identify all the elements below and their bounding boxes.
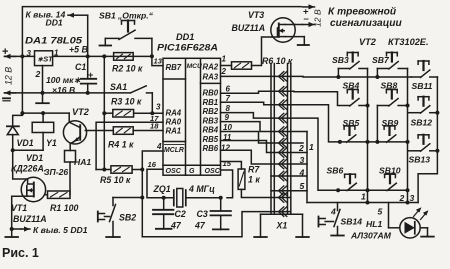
wire +12V riser and top rail to alarm	[22, 7, 301, 57]
svg-text:RB7: RB7	[166, 63, 182, 72]
svg-text:VT2: VT2	[359, 37, 377, 47]
svg-text:RA2: RA2	[203, 63, 219, 72]
svg-text:КТ3102Е.: КТ3102Е.	[388, 37, 429, 47]
svg-text:R6 10 к: R6 10 к	[262, 56, 293, 66]
wire pin 2 to connector	[221, 75, 272, 77]
capacitor C3 47	[220, 198, 222, 211]
wire +5V to DD1 pin 13	[152, 56, 163, 65]
svg-text:RB3: RB3	[203, 116, 219, 125]
svg-text:КД226А.: КД226А.	[11, 164, 46, 174]
wire R6 to VT3 gate	[252, 37, 273, 66]
svg-text:SB3: SB3	[332, 55, 349, 65]
svg-text:6: 6	[226, 85, 231, 94]
resistor R5 10k	[111, 166, 132, 173]
wire relay node	[22, 112, 69, 114]
svg-text:4 МГц: 4 МГц	[188, 184, 215, 194]
wire X1 row6 stub	[291, 142, 303, 144]
button SB2	[113, 197, 142, 199]
contact chevrons X1 row 4	[271, 117, 291, 119]
wire DA1 pin2 to ground	[42, 66, 44, 93]
resistor R2 10k	[114, 53, 134, 61]
contact chevrons X1 row 2	[271, 90, 291, 92]
svg-text:SB13: SB13	[409, 155, 431, 165]
svg-text:47: 47	[194, 221, 206, 231]
wire +12V to DA1 and top rail	[5, 55, 35, 57]
svg-text:Х1: Х1	[276, 221, 288, 231]
svg-text:С1: С1	[75, 62, 86, 72]
svg-text:7: 7	[226, 94, 231, 103]
svg-text:Рис. 1: Рис. 1	[2, 246, 39, 260]
svg-text:„Откр.“: „Откр.“	[117, 11, 154, 21]
capacitor C1 100uF 16V	[87, 56, 89, 78]
ground X1 right	[302, 214, 304, 237]
wire +5V rail	[53, 55, 153, 57]
LED HL1 AL307AM	[388, 203, 390, 228]
wire pin 9 to connector	[221, 122, 272, 132]
svg-text:DD1: DD1	[46, 18, 63, 28]
contact chevrons X1 row 9	[271, 175, 291, 177]
contact chevrons X1 row 7	[271, 152, 291, 154]
svg-text:RB5: RB5	[203, 135, 219, 144]
wire VT3 drain to alarm terminal	[303, 24, 315, 26]
resistor R4 1k	[113, 127, 133, 135]
wire R5 to MCLR node	[132, 169, 142, 171]
svg-text:3: 3	[27, 49, 32, 58]
contact chevrons X1 row 3	[271, 104, 291, 106]
svg-text:RA1: RA1	[166, 126, 182, 135]
svg-text:Y1: Y1	[46, 138, 57, 148]
contact chevrons X1 row 6	[271, 142, 291, 144]
svg-text:HL1: HL1	[366, 219, 382, 229]
svg-text:ЗП-26: ЗП-26	[44, 167, 68, 177]
wire pin1 to R6	[221, 65, 232, 67]
svg-text:5: 5	[378, 207, 383, 217]
svg-text:SB2: SB2	[119, 213, 136, 223]
svg-text:3: 3	[156, 103, 161, 112]
svg-text:RA4: RA4	[166, 109, 182, 118]
wire SB1 right contact to +5V rail	[135, 37, 152, 39]
svg-text:MCU: MCU	[187, 63, 202, 70]
svg-text:ZQ1: ZQ1	[153, 184, 171, 194]
wire top rail arrow	[303, 6, 315, 8]
svg-text:DD1: DD1	[176, 32, 194, 42]
svg-text:1: 1	[361, 192, 366, 202]
contact chevrons X1 row 10	[271, 190, 291, 192]
svg-text:RB6: RB6	[203, 144, 219, 153]
bottom bus wire	[307, 202, 418, 204]
wire +5V drop to R3	[103, 56, 105, 113]
svg-text:+: +	[88, 70, 93, 80]
svg-text:10: 10	[223, 123, 232, 132]
wire -12V rail	[5, 92, 131, 94]
wire R7 top to DD1	[221, 162, 242, 170]
wire X1 row9 to bus collector	[291, 175, 307, 177]
svg-text:RB0: RB0	[203, 89, 219, 98]
svg-text:сигнализации: сигнализации	[330, 18, 402, 29]
svg-text:16: 16	[148, 160, 157, 169]
column 1 wire	[367, 69, 369, 203]
svg-text:OSC: OSC	[166, 167, 182, 175]
svg-text:1: 1	[309, 142, 314, 152]
node +12V input terminal	[5, 55, 16, 57]
buzzer HA1 ZP-26	[65, 151, 76, 163]
wire MCLR node down to SB2	[141, 170, 143, 198]
wire SB1 left contact to ground	[105, 37, 119, 39]
svg-text:SB12: SB12	[411, 118, 433, 128]
key row D wire	[338, 189, 407, 191]
wire X1 row4 to key row D	[291, 118, 338, 190]
wire pin 12 to connector	[221, 150, 272, 164]
voltage regulator DA1 78L05	[35, 51, 53, 66]
svg-text:SB11: SB11	[412, 81, 433, 91]
svg-text:13: 13	[154, 57, 163, 66]
wire pin 7 to connector	[221, 102, 272, 104]
svg-text:9: 9	[225, 113, 230, 122]
wire R7 bottom to connector	[241, 189, 271, 197]
svg-text:3: 3	[410, 193, 415, 203]
ground X1 left	[260, 214, 262, 237]
node to pin 5 DD1	[12, 228, 21, 230]
svg-text:К тревожной: К тревожной	[328, 7, 397, 18]
svg-text:1 к: 1 к	[248, 175, 260, 185]
svg-text:∗ST: ∗ST	[37, 55, 54, 64]
resistor R7 1k	[238, 169, 245, 189]
svg-text:R4 1 к: R4 1 к	[108, 140, 134, 150]
wire pin15 to crystal	[221, 170, 233, 198]
svg-text:15: 15	[223, 159, 232, 168]
svg-text:VT2: VT2	[72, 107, 90, 117]
svg-text:12: 12	[221, 144, 230, 153]
wire DD1 pin 4 MCLR	[142, 151, 163, 170]
resistor R6 10k	[232, 62, 252, 69]
svg-text:RB1: RB1	[203, 98, 219, 107]
svg-text:VT1: VT1	[11, 203, 27, 213]
wire pin 6 to connector	[221, 91, 272, 93]
contact chevrons X1 row 8	[271, 163, 291, 165]
svg-text:4: 4	[156, 142, 162, 151]
svg-text:G: G	[189, 167, 195, 175]
svg-text:RB4: RB4	[203, 126, 219, 135]
ground under DA1	[42, 93, 44, 103]
wire VD1 to relay bottom	[13, 149, 43, 151]
resistor R1 100	[46, 194, 48, 196]
svg-text:2: 2	[221, 67, 227, 76]
svg-text:4: 4	[330, 207, 336, 217]
key row C wire	[340, 141, 408, 143]
svg-text:SA1: SA1	[110, 82, 127, 92]
column 2 wire	[407, 69, 409, 203]
bus collector vertical	[306, 132, 308, 203]
svg-text:2: 2	[399, 193, 405, 203]
connector X1 body	[270, 64, 272, 215]
svg-text:2: 2	[35, 69, 41, 79]
wire pin16 to crystal	[147, 169, 174, 198]
svg-text:К выв. 5 DD1: К выв. 5 DD1	[33, 225, 88, 235]
capacitor C2 47	[163, 198, 165, 210]
wire X1 row1 to key row A	[291, 75, 412, 78]
wire X1 row10 to bus collector	[291, 190, 307, 192]
wire HA1 to R1	[69, 162, 71, 195]
svg-text:×16 В: ×16 В	[52, 85, 75, 95]
contact chevrons X1 row 5	[271, 131, 291, 133]
contact chevrons X1 row 11	[271, 197, 291, 199]
svg-text:1: 1	[222, 55, 227, 64]
button SB14	[337, 203, 339, 211]
wire X1 row3 to key row C	[291, 105, 340, 142]
svg-text:4: 4	[299, 168, 305, 178]
wire pin 8 to connector	[221, 113, 272, 119]
svg-text:R1 100: R1 100	[50, 203, 78, 213]
svg-text:RA3: RA3	[203, 73, 219, 82]
svg-text:8: 8	[226, 104, 231, 113]
contact chevrons X1 row 1	[271, 75, 291, 77]
svg-text:SB14: SB14	[341, 217, 363, 227]
wire X1 row2 to SB4	[291, 91, 338, 104]
wire +5V drop to R5	[103, 113, 105, 169]
svg-text:BUZ11A: BUZ11A	[232, 23, 266, 33]
wire R3 to DD1 pin 3	[104, 112, 113, 114]
wire X1 row5 to bus collector	[291, 131, 307, 133]
transistor VT1 BUZ11A	[21, 177, 45, 201]
svg-text:VD1: VD1	[17, 138, 34, 148]
svg-text:3: 3	[300, 155, 305, 165]
wire ground bus to X1	[141, 198, 143, 237]
svg-text:VT3: VT3	[248, 10, 264, 20]
svg-text:5: 5	[300, 181, 305, 191]
wire SB8 left to key row C	[376, 106, 378, 142]
svg-text:12 В: 12 В	[4, 67, 14, 85]
resistor R3 10k	[113, 110, 134, 118]
wire from pin14 note to +5V rail	[87, 15, 89, 56]
svg-text:R7: R7	[248, 165, 260, 175]
wire pin 10 to connector	[221, 132, 272, 144]
column 3 wire	[418, 77, 437, 203]
svg-text:PIC16F628A: PIC16F628A	[157, 43, 218, 53]
contact chevrons X1 row 12	[271, 211, 291, 213]
wire pin 11 to connector	[221, 141, 272, 153]
wire +12V branch down to relay circuit	[21, 56, 23, 113]
ground VT1 source	[11, 229, 13, 237]
wire DD1 pin 17 to R5	[96, 122, 163, 169]
svg-text:С3: С3	[197, 209, 208, 219]
svg-text:18: 18	[150, 122, 159, 131]
svg-text:R3 10 к: R3 10 к	[111, 97, 142, 107]
svg-text:+5 В: +5 В	[69, 45, 88, 55]
svg-text:RB2: RB2	[203, 107, 219, 116]
svg-text:MCLR: MCLR	[164, 147, 184, 154]
svg-text:RA0: RA0	[166, 117, 182, 126]
wire X1 row8 to bus collector	[291, 163, 307, 165]
svg-text:SB6: SB6	[327, 166, 344, 176]
svg-text:SB1: SB1	[99, 11, 116, 21]
svg-text:12 В: 12 В	[313, 9, 323, 27]
svg-text:–: –	[304, 14, 309, 25]
svg-text:R5 10 к: R5 10 к	[100, 175, 131, 185]
svg-text:НА1: НА1	[74, 157, 91, 167]
svg-text:100 мк∗: 100 мк∗	[46, 75, 81, 85]
wire R4 to VT2 base	[85, 130, 113, 132]
svg-text:R2 10 к: R2 10 к	[112, 64, 143, 74]
svg-text:2: 2	[298, 143, 304, 153]
svg-text:47: 47	[170, 221, 182, 231]
svg-text:OSC: OSC	[205, 167, 221, 175]
relay Y1	[32, 122, 54, 132]
diode VD1 KD226A	[13, 113, 23, 126]
svg-text:С2: С2	[175, 209, 186, 219]
node -12V input terminal	[5, 92, 16, 94]
wire X1 row7 to bus collector	[291, 152, 307, 154]
ground VT3 source	[303, 37, 305, 45]
svg-text:АЛ307АМ: АЛ307АМ	[350, 231, 392, 241]
X1 bottom	[261, 213, 303, 215]
svg-text:BUZ11A: BUZ11A	[13, 214, 47, 224]
wire VT2 emitter to HA1	[70, 142, 73, 144]
wire R4 to DD1 pin 18	[133, 130, 163, 132]
svg-text:VD1: VD1	[26, 153, 43, 163]
